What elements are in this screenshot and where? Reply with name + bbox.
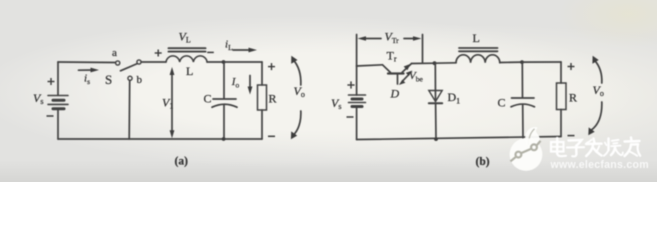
- inductor L (b): core bars: [459, 48, 498, 51]
- svg-text:a: a: [112, 47, 117, 59]
- wire: (b) top wire battery corner to transistor emitter: [357, 65, 383, 66]
- label - (a battery): [47, 115, 54, 117]
- watermark: elecfans logo and text: [510, 127, 649, 171]
- wire: (b) node to top-right corner: [522, 61, 561, 63]
- watermark chinese text 电子发烧友 (drawn strokes): [551, 138, 640, 157]
- switch S (a): pole circle: [137, 60, 141, 64]
- wire: (a) left branch top: [57, 62, 59, 95]
- wire: (a) from node down to capacitor: [223, 62, 225, 99]
- svg-text:D: D: [390, 87, 400, 101]
- wire: (a) bottom rail: [58, 138, 262, 140]
- label - (b output): [568, 135, 575, 137]
- svg-text:Vbe: Vbe: [409, 70, 423, 84]
- wire: (b) diode branch upper: [434, 63, 436, 101]
- label - (b battery): [347, 116, 354, 118]
- label + (a battery): [48, 78, 55, 85]
- transistor Tr (b): [383, 64, 412, 85]
- glyph 电: [551, 142, 564, 152]
- wire: (a) top wire from battery to switch contact a: [58, 61, 116, 64]
- wire: (a) from capacitor down to bottom rail: [223, 106, 225, 140]
- wire: (b) capacitor branch upper: [521, 62, 523, 97]
- svg-text:R: R: [569, 91, 577, 105]
- svg-text:C: C: [204, 92, 212, 106]
- svg-text:S: S: [105, 72, 112, 87]
- label + (a inductor): [155, 50, 162, 57]
- capacitor C (b): [511, 98, 535, 107]
- arrow: VTr left arrow (b): [358, 36, 382, 41]
- resistor R (a): [258, 85, 267, 110]
- svg-text:Vs: Vs: [33, 91, 43, 106]
- node: junction dot at diode bottom (b): [434, 137, 438, 141]
- switch S (a): contact a circle: [116, 61, 120, 65]
- arrow: VTr right arrow (b): [404, 36, 422, 41]
- wire: (a) top wire from switch pole to inductor: [141, 61, 166, 63]
- svg-text:Tr: Tr: [387, 49, 397, 64]
- wire: (b) transistor collector to diode node: [412, 62, 435, 64]
- battery Vs (b): [349, 95, 366, 107]
- measurement: VTr left tick (b): [356, 35, 358, 67]
- svg-text:is: is: [84, 73, 90, 87]
- svg-text:iL: iL: [225, 38, 233, 52]
- glyph 子: [569, 140, 582, 146]
- wire: (b) inductor to capacitor node: [500, 61, 522, 63]
- arrow: Vo curved arrow (a) bottom: [293, 111, 301, 136]
- watermark logo circle: [510, 138, 543, 171]
- glyph 烧: [607, 139, 610, 151]
- battery Vs (a): [48, 96, 68, 109]
- label + (b battery): [347, 81, 354, 88]
- svg-text:Vo: Vo: [593, 83, 604, 98]
- resistor R (b): [557, 83, 567, 110]
- watermark logo circuit traces: [511, 141, 541, 162]
- switch S (a): blade: [121, 64, 138, 71]
- arrow: iL current arrow (a): [233, 48, 257, 53]
- node: junction dot capacitor bottom (a): [222, 137, 226, 141]
- glyph 友: [625, 140, 640, 143]
- node: junction dot after L (a): [222, 60, 226, 64]
- node: junction dot at diode top (b): [433, 61, 437, 65]
- arrow: Vo curved arrow (a) top: [293, 60, 301, 86]
- svg-text:b: b: [137, 74, 143, 86]
- capacitor C (a): [212, 99, 237, 107]
- glyph 发: [586, 142, 602, 145]
- svg-text:Vo: Vo: [294, 84, 305, 99]
- svg-text:(b): (b): [476, 156, 490, 168]
- wire: (b) right branch top: [560, 62, 562, 83]
- wire: (b) right branch bottom: [560, 110, 562, 137]
- wire: (b) capacitor branch lower: [522, 105, 524, 139]
- arrow: Vo curved arrow (b) bottom: [591, 102, 602, 131]
- switch S (a): contact b circle: [128, 76, 132, 80]
- label - (a inductor): [207, 51, 214, 53]
- svg-text:L: L: [186, 64, 193, 78]
- node: junction dot at capacitor top (b): [520, 60, 524, 64]
- svg-text:VTr: VTr: [385, 29, 400, 45]
- arrow: V1 voltage double arrow (a): [170, 67, 175, 138]
- label + (a output): [268, 63, 275, 70]
- wire: (b) left branch top: [356, 66, 358, 95]
- wire: (a) right branch top: [261, 62, 263, 85]
- wire: (b) bottom rail: [357, 137, 561, 140]
- inductor L (b): coil: [456, 55, 500, 63]
- measurement: VTr right tick (b): [422, 35, 424, 64]
- inductor L (a): coil: [166, 56, 207, 62]
- label + (b output): [568, 63, 575, 70]
- arrow: is current arrow (a): [79, 68, 100, 73]
- wire: (b) node to inductor: [435, 62, 457, 64]
- svg-text:Vs: Vs: [331, 96, 341, 111]
- wire: (a) left branch bottom: [57, 109, 59, 139]
- arrow: Vbe double diagonal arrow (b): [399, 71, 413, 86]
- wire: (a) right branch bottom: [261, 110, 263, 139]
- wire: (b) diode branch lower: [435, 103, 437, 139]
- arrow: Io current arrow (a): [248, 76, 253, 95]
- arrow: Vo curved arrow (b) top: [594, 60, 602, 83]
- svg-text:D1: D1: [448, 90, 461, 106]
- wire: (a) from contact b down to bottom rail: [128, 80, 131, 139]
- watermark logo leaf: [525, 127, 540, 146]
- diode D1 (b): [429, 91, 442, 104]
- svg-text:(a): (a): [175, 156, 189, 168]
- inductor L (a): core bars: [169, 48, 206, 51]
- wire: (a) top wire from inductor to right corner: [207, 61, 262, 63]
- svg-text:VL: VL: [179, 30, 191, 45]
- svg-text:www.elecfans.com: www.elecfans.com: [550, 159, 649, 171]
- svg-text:L: L: [473, 31, 480, 45]
- svg-text:C: C: [498, 96, 506, 110]
- label - (a output): [268, 135, 275, 137]
- wire: (b) left branch bottom: [356, 107, 358, 140]
- svg-text:R: R: [269, 92, 277, 106]
- svg-text:Io: Io: [231, 76, 240, 90]
